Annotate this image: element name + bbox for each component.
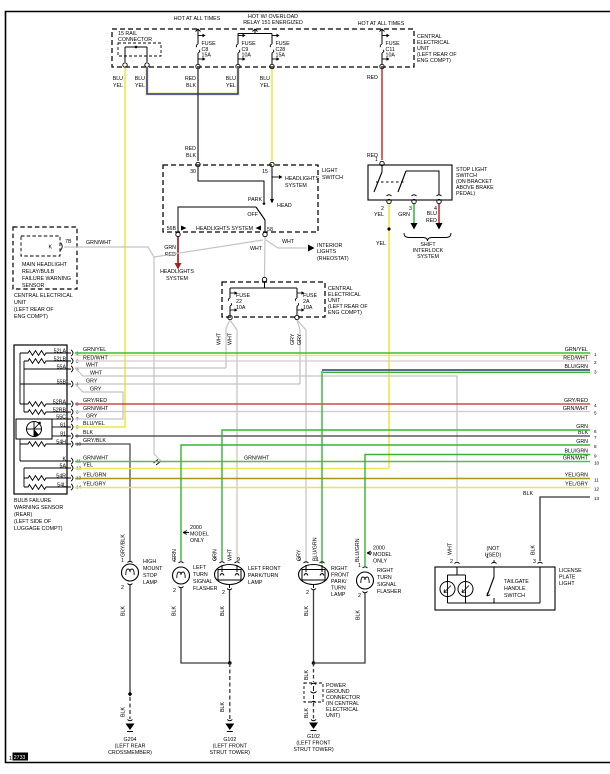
ground G204 [108,720,152,757]
svg-text:10A: 10A [242,53,252,59]
wire WHT pin3 upper fork to fuse 22 [75,363,226,369]
wire BLK from left park lamp to junction and ground G102 [228,590,232,719]
svg-text:RED: RED [185,146,196,152]
stop light switch pin 2 [381,199,391,212]
svg-text:54L: 54L [57,483,66,489]
power ground connector [304,683,323,703]
connector pin 6 (52RB) [53,408,79,416]
svg-text:YEL/GRY: YEL/GRY [565,482,588,488]
rotated label BLK on license plate wire [531,545,537,555]
license pin 1 (not used) [485,546,502,564]
internal wire row 11 [20,444,67,461]
svg-text:1: 1 [358,563,361,569]
internal wire row 3 [24,368,67,370]
sensor disc box [16,419,52,439]
svg-text:BLK: BLK [304,708,310,718]
svg-text:5: 5 [594,411,597,416]
wire WHT from pin 58 down to fuse box CEU2 [264,237,267,277]
svg-text:SIGNAL: SIGNAL [377,582,396,588]
svg-text:BLK: BLK [186,83,196,89]
rotated label BLK (center ground wire) [220,702,226,712]
svg-text:1: 1 [316,557,319,563]
svg-text:BLU/GRN: BLU/GRN [564,449,588,455]
wire GRN arrow (shift interlock) [411,204,418,230]
svg-text:HIGH: HIGH [143,559,156,565]
wire GRN/YEL pin1 to right edge 1 [75,347,597,357]
connector pin 3 (55A) [57,365,79,373]
svg-text:LIGHT: LIGHT [559,581,575,587]
connector pin 1 (52LA) [54,349,79,357]
light switch internal: pin30 to PARK contact [198,167,265,205]
svg-text:61: 61 [60,423,66,429]
svg-text:BLK: BLK [186,153,196,159]
wire BLK from left flasher to junction [181,588,230,663]
svg-text:2: 2 [121,585,124,591]
svg-text:LIGHT: LIGHT [322,168,338,174]
svg-text:USED): USED) [485,553,502,559]
svg-text:BLK: BLK [304,670,310,680]
svg-text:BLU/GRN: BLU/GRN [564,364,588,370]
svg-text:2: 2 [222,590,225,596]
wire GRY pin4 upper fork to fuse 2A [75,379,300,385]
svg-text:1: 1 [121,558,124,564]
wire GRY fuse2A to connector pin4 (left fork) [297,320,300,384]
svg-text:SWITCH: SWITCH [504,593,525,599]
svg-text:11: 11 [594,478,599,483]
wire BLK to right edge 13 and down to license plate light [523,491,600,561]
resistor row 6 [24,410,67,415]
wire BLK dashed from power ground connector to ground [313,703,315,719]
svg-text:CROSSMEMBER): CROSSMEMBER) [108,750,152,756]
wire GRY/RED pin5 to right edge 4 [75,398,597,408]
corner tag 12733 [9,753,28,763]
wire WHT diagonal from pin 58 to splice vertical [154,240,263,257]
rotated label BLK (high mount lower) [121,707,127,717]
svg-text:GRY/BLK: GRY/BLK [83,438,106,444]
svg-text:UNIT): UNIT) [326,713,340,719]
wire YEL/GRY pin14 to right edge 12 [75,482,600,492]
svg-text:GRY: GRY [290,333,296,345]
svg-text:SYSTEM: SYSTEM [417,254,439,260]
label RIGHT TURN SIGNAL FLASHER [377,568,402,595]
svg-text:YEL/GRN: YEL/GRN [83,473,106,479]
svg-text:SENSOR: SENSOR [22,283,45,289]
svg-text:BLU: BLU [427,211,437,217]
svg-text:BLU: BLU [226,76,236,82]
wire BLU/GRN to right edge 9 and down to right turn signal flasher [365,449,597,567]
internal wire row 12 [24,468,67,487]
svg-text:RIGHT: RIGHT [377,568,394,574]
main headlight relay inner dashed box [21,236,60,256]
svg-text:10A: 10A [236,305,246,311]
wire GRY fuse2A to right front park lamp (right fork) [297,320,306,563]
labels GRY GRY (below fuse 2A) [290,333,303,345]
svg-text:HEAD: HEAD [277,203,292,209]
svg-text:15A: 15A [276,53,286,59]
wire GRN to right edge 8 and down to left turn signal flasher [181,439,597,561]
stop light switch pin 3 [409,199,416,212]
svg-text:LAMP: LAMP [248,580,263,586]
svg-text:LEFT: LEFT [193,565,207,571]
central electrical unit top dashed box [112,29,414,67]
license bulb right [458,582,473,597]
brace shift interlock [404,233,451,241]
label BLU YEL (rail pin 2) [135,76,145,89]
svg-text:BLK: BLK [121,707,127,717]
resistor row 5 [20,402,67,407]
wire BLU/YEL from rail pin 1 down to connector pin 8 (long yellow vertical) [124,68,126,427]
wire WHT fuse22 to left front park lamp (right fork) [230,320,237,561]
svg-text:RED: RED [185,76,196,82]
tailgate handle switch [487,567,494,603]
svg-text:WHT: WHT [217,332,223,345]
svg-text:YEL/GRY: YEL/GRY [83,482,106,488]
svg-text:GRN: GRN [164,245,176,251]
svg-text:BLK: BLK [531,545,537,555]
internal wires rows 7 8 9 from disc box [52,419,67,436]
svg-text:2: 2 [306,590,309,596]
connector pin 14 (54L) [57,483,81,491]
svg-text:G102: G102 [223,737,236,743]
svg-text:10: 10 [594,461,600,466]
svg-text:FAILURE WARNING: FAILURE WARNING [22,276,71,282]
wire RED/WHT pin2 to right edge 2 [75,356,597,366]
svg-text:BLK: BLK [304,606,310,616]
label BLU YEL (under fuse C28) [260,76,270,89]
svg-text:BLU/YEL: BLU/YEL [83,421,105,427]
svg-text:WARNING SENSOR: WARNING SENSOR [14,505,63,511]
svg-text:52LA: 52LA [54,349,67,355]
svg-text:WHT: WHT [448,542,454,555]
svg-text:RELAY 151 ENERGIZED: RELAY 151 ENERGIZED [243,20,303,26]
svg-text:(LEFT FRONT: (LEFT FRONT [296,741,331,747]
wire GRN/WHT pin11 to right edge 10 [75,456,600,466]
svg-text:52LB: 52LB [54,357,67,363]
svg-text:2000: 2000 [373,546,385,552]
svg-text:LUGGAGE COMPT): LUGGAGE COMPT) [14,526,63,532]
svg-text:BLK: BLK [121,606,127,616]
label CENTRAL ELECTRICAL UNIT (LEFT REAR OF ENG COMPT) right of CEU2 [328,286,368,316]
svg-text:LICENSE: LICENSE [559,568,582,574]
label RED (upper) [367,75,378,81]
resistor row 10 [20,439,67,446]
svg-text:RED: RED [426,218,437,224]
internal bus verticals [20,353,24,412]
light switch lever and 56B arm [178,207,265,232]
connector pin 8 (61) [60,423,79,431]
label CENTRAL ELECTRICAL UNIT (LEFT REAR OF ENG COMPT) [14,293,73,320]
rotated label BLK (left flasher) [172,606,178,616]
svg-text:BLU: BLU [260,76,270,82]
label HEADLIGHTS SYSTEM (pin 15 branch) [285,176,319,189]
wire RED/BLK from fuse C8 to light switch pin 30 [197,69,199,161]
svg-text:CONNECTOR: CONNECTOR [118,37,152,43]
svg-text:ENG COMPT): ENG COMPT) [328,310,362,316]
svg-text:HEADLIGHTS: HEADLIGHTS [285,176,319,182]
rotated label BLK (left park lamp) [220,606,226,616]
rotated label WHT on left park lamp wire [228,548,234,561]
label BLU YEL (under fuse C9) [226,76,236,89]
svg-text:SYSTEM: SYSTEM [166,276,188,282]
svg-text:WHT: WHT [282,239,295,245]
label GRN RED (below 56B) [164,245,176,258]
light switch internal: pin15 to HEAD contact [270,167,283,204]
label WHT (interior lights branch) [282,239,295,245]
svg-text:BULB FAILURE: BULB FAILURE [14,498,52,504]
svg-text:GRN: GRN [398,212,410,218]
svg-text:PLATE: PLATE [559,575,576,581]
svg-text:GRY: GRY [86,414,98,420]
label HEADLIGHTS SYSTEM (below arrow) [160,269,194,282]
wire YEL from stop light switch pin 2 down to connector pin 12 [387,204,390,468]
svg-text:GRN/WHT: GRN/WHT [563,406,589,412]
svg-text:RED: RED [367,75,378,81]
svg-text:RIGHT: RIGHT [331,566,348,572]
svg-text:BLK: BLK [523,491,533,497]
rotated label BLU/GRN on right park lamp wire [313,537,319,561]
svg-text:3: 3 [594,370,597,375]
svg-text:MOUNT: MOUNT [143,566,163,572]
svg-text:1: 1 [9,756,12,762]
svg-text:GRY: GRY [86,379,98,385]
label BLU YEL (rail pin 1) [113,76,123,89]
svg-text:55A: 55A [57,365,67,371]
svg-text:15A: 15A [202,53,212,59]
svg-text:LEFT FRONT: LEFT FRONT [248,566,281,572]
wire BLU/YEL pin8 to rail connector vertical [75,421,126,427]
wire BLU/YEL from fuse C28 to light switch pin 15 [271,69,273,161]
fuse 22 10A [228,288,251,320]
svg-text:GRY/RED: GRY/RED [564,398,588,404]
wire BLK from high mount stop lamp to ground G204 [128,585,132,719]
svg-text:15: 15 [262,169,268,175]
stop light switch pin 1 [375,157,384,166]
svg-text:GRY: GRY [90,387,102,393]
wire BLK from right park lamp to junction [312,590,316,665]
label BULB FAILURE WARNING SENSOR (REAR) (LEFT SIDE OF LUGGAGE COMPT) [14,498,63,532]
wire BLK from right flasher to junction [314,593,366,663]
label 56B [167,226,177,232]
svg-text:GRN/WHT: GRN/WHT [563,456,589,462]
left turn signal flasher [173,558,190,594]
svg-text:13: 13 [594,496,600,501]
connector pin 4 (55B) [57,380,79,388]
main headlight relay outer dashed box (central electrical unit) [13,227,77,289]
svg-text:BLK: BLK [578,430,588,436]
svg-text:55B: 55B [57,380,67,386]
wire BLU/GRN to right edge 3 and down to right front park turn lamp [322,364,597,564]
svg-text:MODEL: MODEL [373,552,392,558]
label GRN [398,212,410,218]
resistor row 2 [24,359,67,364]
svg-text:9: 9 [298,557,301,563]
rotated label GRN on left flasher wire [172,549,178,561]
rotated label BLK (right flasher) [356,610,362,620]
wire GRN to right edge 6 and down to left front park turn lamp [222,424,597,561]
svg-text:(LEFT REAR: (LEFT REAR [115,744,146,750]
label LIGHT SWITCH [322,168,343,181]
fuse C11 10A [380,29,401,69]
svg-text:BLK: BLK [356,610,362,620]
rotated label GRY/BLK on high mount stop lamp wire [121,534,127,557]
label LEFT TURN SIGNAL FLASHER [193,565,218,592]
connector pin 11 (K) [62,457,81,465]
label BLU RED [426,211,437,224]
svg-text:2000: 2000 [190,525,202,531]
light switch pin 30 [190,162,200,175]
label GRN/WHT (relay wire) [86,240,112,246]
label SHIFT INTERLOCK SYSTEM [413,242,444,260]
license pin 3 [533,559,542,565]
left front park/turn lamp [213,557,244,596]
rotated label GRY on right park lamp wire [297,549,303,561]
CEU2 internal bus [230,282,297,288]
fuse C9 10A [236,34,256,69]
svg-text:YEL/GRN: YEL/GRN [565,473,588,479]
svg-text:BLK: BLK [220,702,226,712]
label GRY pin7 [86,414,98,420]
svg-text:BLK: BLK [172,606,178,616]
label STOP LIGHT SWITCH (ON BRACKET ABOVE BRAKE PEDAL) [456,167,494,197]
svg-text:GRN/WHT: GRN/WHT [86,240,112,246]
svg-text:6: 6 [594,429,597,434]
label RED BLK (upper) [185,76,197,89]
resistor row 13 [24,476,67,481]
svg-text:TURN: TURN [377,575,392,581]
wire GRN/WHT from relay to splice vertical [64,247,161,461]
svg-text:1: 1 [173,558,176,564]
label RED (lower) [367,153,378,159]
fuse 2A 10A [295,288,318,320]
label YEL (upper) [374,212,384,218]
connector pin 10 (54H) [56,440,81,448]
svg-text:91: 91 [60,432,66,438]
label WHT (below pin 58) [250,246,263,252]
svg-text:8: 8 [594,444,597,449]
svg-text:GRN/WHT: GRN/WHT [83,406,109,412]
svg-text:K: K [48,245,52,251]
label HOT AT ALL TIMES (right) [358,21,405,27]
rotated label BLK (below power ground connector) [304,708,310,718]
connector 7B half [61,239,72,251]
svg-text:9: 9 [594,454,597,459]
ground G102 right [293,720,334,754]
CEU2 top pin [262,277,266,281]
wire RED from fuse C11 to stop light switch pin 1 [381,69,383,160]
label 58 [267,227,273,233]
label HOT AT ALL TIMES (left) [174,16,221,22]
svg-text:WHT: WHT [250,246,263,252]
svg-text:WHT: WHT [90,371,103,377]
svg-text:HEADLIGHTS SYSTEM: HEADLIGHTS SYSTEM [196,226,253,232]
label POWER GROUND CONNECTOR (IN CENTRAL ELECTRICAL UNIT) [326,683,360,719]
svg-text:LIGHTS: LIGHTS [317,249,337,255]
svg-text:BLU: BLU [113,76,123,82]
svg-text:(NOT: (NOT [487,546,501,552]
license pin 2 [450,559,459,565]
connector pin 13 (54R) [56,474,81,482]
resistor row 14 [24,485,67,490]
svg-text:TURN: TURN [331,586,346,592]
wire BLK dashed from junction to power ground connector [313,663,315,682]
resistor row 1 [20,351,67,356]
svg-text:52RA: 52RA [53,400,67,406]
svg-text:K: K [62,457,66,463]
svg-text:4: 4 [594,403,597,408]
svg-text:STRUT TOWER): STRUT TOWER) [293,747,334,753]
svg-text:ONLY: ONLY [373,559,387,565]
right front park/turn lamp [298,557,328,596]
svg-text:HANDLE: HANDLE [504,586,526,592]
label CENTRAL ELECTRICAL UNIT (top right) [417,34,457,64]
svg-text:YEL: YEL [376,241,386,247]
internal arrows HEADLIGHTS SYSTEM (bottom row) [181,226,261,233]
svg-text:RED/WHT: RED/WHT [83,356,108,362]
svg-text:MODEL: MODEL [190,532,209,538]
connector pin 9 (91) [60,432,79,440]
svg-text:BLU: BLU [135,76,145,82]
svg-text:(REAR): (REAR) [14,512,32,518]
svg-text:1: 1 [594,352,597,357]
svg-text:GRY/BLK: GRY/BLK [121,534,127,557]
svg-text:STRUT TOWER): STRUT TOWER) [210,750,251,756]
svg-text:LAMP: LAMP [143,580,158,586]
label LICENSE PLATE LIGHT [559,568,582,587]
svg-text:55C: 55C [56,415,66,421]
svg-text:TURN: TURN [193,572,208,578]
svg-text:SWITCH: SWITCH [322,175,343,181]
svg-text:56B: 56B [167,226,177,232]
wire WHT fuse22 to connector pin3 (left fork) [226,320,230,368]
svg-text:ENG COMPT): ENG COMPT) [14,314,48,320]
svg-text:BLK: BLK [83,430,93,436]
svg-text:PEDAL): PEDAL) [456,191,475,197]
svg-text:PARK/TURN: PARK/TURN [248,573,278,579]
svg-text:FLASHER: FLASHER [377,589,402,595]
right turn signal flasher [357,563,374,599]
splice marks [154,460,161,466]
svg-text:CENTRAL ELECTRICAL: CENTRAL ELECTRICAL [14,293,73,299]
svg-text:HEADLIGHTS: HEADLIGHTS [160,269,194,275]
label HEAD [277,203,292,209]
svg-text:GRN/WHT: GRN/WHT [83,456,109,462]
label MAIN HEADLIGHT RELAY/BULB FAILURE WARNING SENSOR [22,262,71,289]
svg-text:YEL: YEL [135,83,145,89]
svg-text:GRN: GRN [576,424,588,430]
svg-text:GRN: GRN [576,439,588,445]
internal wire row 4 [20,383,67,385]
svg-text:GRY: GRY [297,333,303,345]
svg-text:WHT: WHT [228,548,234,561]
svg-text:54R: 54R [56,474,66,480]
svg-text:YEL: YEL [260,83,270,89]
svg-text:58: 58 [267,227,273,233]
svg-text:BLK: BLK [220,606,226,616]
wire YEL/GRN pin13 to right edge 11 [75,473,599,483]
svg-text:2: 2 [358,593,361,599]
svg-text:GRN/YEL: GRN/YEL [83,347,106,353]
svg-text:12: 12 [594,487,600,492]
license bulb left [440,582,455,597]
svg-text:STOP: STOP [143,573,158,579]
central electrical unit 2 dashed box (fuses 22 / 2A) [222,282,325,317]
svg-text:HOT AT ALL TIMES: HOT AT ALL TIMES [174,16,221,22]
rotated label BLK (high mount upper) [121,606,127,616]
rotated label WHT on license plate wire [448,542,454,555]
light switch pin 58 (bottom) [263,232,267,236]
license plate light box [435,567,555,610]
label HOT W/ OVERLOAD RELAY 151 ENERGIZED [243,14,303,26]
